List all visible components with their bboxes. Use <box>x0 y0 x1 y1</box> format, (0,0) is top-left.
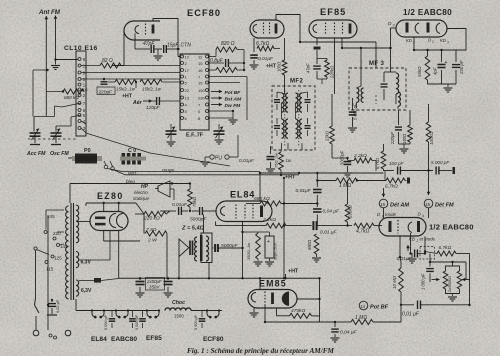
wire y173 run <box>260 172 384 174</box>
capacitor 5000pF au <box>190 207 216 223</box>
capacitor 0,01μF tri <box>397 233 427 262</box>
label KD3 <box>440 38 449 45</box>
wire ef85 beam bar <box>314 38 321 50</box>
svg-text:4μF: 4μF <box>433 67 438 75</box>
wire el84 grid stub <box>215 211 217 222</box>
label MF2 <box>290 79 303 85</box>
arrow det am <box>382 188 386 197</box>
capacitor 5000pF det <box>431 160 455 175</box>
wire ecf left <box>112 31 124 66</box>
label 6,3V b <box>81 288 92 294</box>
svg-text:2: 2 <box>431 40 434 44</box>
wire module r77 <box>209 77 248 121</box>
wire ecf plate top <box>153 19 181 57</box>
svg-text:re: re <box>2 101 6 106</box>
wire x317 col <box>316 173 318 187</box>
svg-text:2x500kΩ: 2x500kΩ <box>447 276 452 293</box>
svg-text:230: 230 <box>198 95 205 100</box>
switch selector <box>34 247 49 298</box>
ground PU <box>201 157 210 166</box>
resistor 150Ω mf3 <box>402 110 412 144</box>
svg-text:EL84: EL84 <box>91 336 107 343</box>
wire bus y48 <box>342 47 392 49</box>
svg-text:150: 150 <box>198 88 205 93</box>
resistor 7,5Ω 2W <box>145 227 167 278</box>
svg-text:680 kΩ: 680 kΩ <box>64 95 79 100</box>
wire row 2 <box>81 78 180 80</box>
ground module <box>209 117 238 124</box>
capacitor 5000pF h2 <box>129 311 136 329</box>
resistor 820Ω <box>209 41 245 63</box>
resistor 6,7kΩ pent <box>256 41 280 51</box>
svg-text:220kΩ: 220kΩ <box>330 65 335 79</box>
svg-text:3: 3 <box>447 41 449 45</box>
arrow det fm <box>427 171 431 196</box>
wire el84 cath <box>241 222 258 279</box>
wire antenna lead 2 <box>54 16 58 60</box>
wire mf3 sig <box>403 143 405 145</box>
svg-text:0,01μF: 0,01μF <box>258 56 274 62</box>
wire em85 grid <box>264 305 266 322</box>
svg-text:EL84: EL84 <box>230 190 255 200</box>
wire bus y42 <box>299 41 376 68</box>
wire mf3 bottom join <box>399 144 411 153</box>
svg-text:+HT: +HT <box>288 269 299 275</box>
capacitor 5000pF ot <box>212 243 243 252</box>
label +HT b <box>266 64 277 70</box>
wire x144 col <box>144 214 145 234</box>
svg-text:220: 220 <box>53 231 61 236</box>
svg-text:EZ80: EZ80 <box>97 191 124 201</box>
tube EF85 <box>309 20 357 38</box>
switch C0 <box>120 153 146 165</box>
transformer sec hv <box>76 203 79 243</box>
wire B+ rail <box>119 277 320 279</box>
potentiometer 2x500kΩ <box>432 266 471 301</box>
capacitor 47pF <box>135 34 162 54</box>
svg-text:rouge: rouge <box>162 168 175 174</box>
tube EZ80 <box>90 212 128 231</box>
paper ghost marks <box>2 96 478 345</box>
svg-text:des: des <box>470 159 478 164</box>
svg-text:0,01μF: 0,01μF <box>239 158 255 164</box>
terminal mains 2 <box>49 330 71 339</box>
svg-text:100 pF: 100 pF <box>389 161 404 166</box>
switch P0 <box>68 154 102 164</box>
svg-text:un ms nne: un ms nne <box>441 106 463 111</box>
svg-text:5000pF: 5000pF <box>221 243 239 249</box>
svg-text:Bst AM: Bst AM <box>225 97 243 103</box>
label D2 <box>428 38 434 45</box>
wire otr drop <box>208 263 210 279</box>
svg-text:0,01μF: 0,01μF <box>172 202 188 208</box>
wire vert run <box>108 169 261 172</box>
wire det fm drop <box>419 208 429 219</box>
wire em85 bottom row <box>264 321 336 323</box>
svg-text:220pF: 220pF <box>390 132 395 145</box>
svg-text:10 MΩ: 10 MΩ <box>392 275 397 289</box>
svg-text:KB: KB <box>409 237 415 242</box>
capacitor 0,01μF col <box>296 188 322 205</box>
wire ez cath drop <box>119 231 145 279</box>
wire mf2 out <box>271 143 303 150</box>
label Osc FM <box>50 151 69 157</box>
resistor 4,7kΩ mod <box>209 68 246 73</box>
wire antenna join <box>54 58 78 60</box>
svg-text:100Ω: 100Ω <box>277 61 282 72</box>
transformer MF3 inner <box>376 92 400 109</box>
svg-text:0,01 μF: 0,01 μF <box>402 312 420 318</box>
svg-text:15kΩ..1w: 15kΩ..1w <box>142 87 162 92</box>
svg-text:la ed: la ed <box>420 281 430 286</box>
ground tri cath <box>408 252 417 263</box>
svg-text:50μF..50V: 50μF..50V <box>274 243 278 260</box>
wire ecf grid <box>130 21 146 41</box>
tube ECF80 pentode <box>250 20 284 38</box>
svg-text:47pF: 47pF <box>306 63 311 73</box>
svg-text:statique: statique <box>133 196 150 201</box>
resistor 22kΩ <box>325 94 335 158</box>
capacitor 220pF mf3 <box>390 110 402 145</box>
label Det AM <box>379 199 409 208</box>
label Ant FM <box>38 9 61 16</box>
svg-text:Fig. 1 : Schéma de principe du: Fig. 1 : Schéma de principe du récepteur… <box>187 347 334 355</box>
wire tuner bottom <box>86 133 230 166</box>
wire diode gnd bus <box>428 84 457 92</box>
svg-text:le s onore de la: le s onore de la <box>400 326 431 331</box>
connector PU <box>205 135 238 162</box>
resistor 55kΩ <box>417 50 430 84</box>
wire det am drop <box>383 208 385 218</box>
svg-text:680Ω: 680Ω <box>307 239 312 250</box>
wire heater from tr <box>79 231 119 283</box>
capacitor 120pF <box>146 97 180 111</box>
tube ECF80 label <box>187 8 221 18</box>
transformer core <box>71 203 74 300</box>
svg-text:15kΩ..1w: 15kΩ..1w <box>116 87 136 92</box>
svg-text:6,7kΩ: 6,7kΩ <box>375 157 380 169</box>
wire antenna lead 1 <box>44 16 48 116</box>
svg-text:1 MΩ: 1 MΩ <box>339 183 351 189</box>
svg-text:350V: 350V <box>149 285 160 290</box>
resistor 680kΩ row <box>246 196 317 206</box>
resistor 6,7kΩ mf3 <box>375 144 386 171</box>
svg-text:1/2 EABC80: 1/2 EABC80 <box>429 223 474 232</box>
tube EABC80 <box>396 20 447 37</box>
svg-text:ECF80: ECF80 <box>203 336 224 343</box>
svg-text:150Ω..1w: 150Ω..1w <box>246 242 251 260</box>
svg-text:0,04 μF: 0,04 μF <box>340 330 358 336</box>
wire bleu run <box>70 182 191 203</box>
resistor 4,7kΩ <box>354 223 382 234</box>
transformer sec 63b <box>76 280 79 299</box>
wire el84 plate up <box>259 172 261 201</box>
label vert <box>128 171 137 177</box>
wire ez plates up <box>86 202 144 214</box>
svg-text:2: 2 <box>412 41 415 45</box>
capacitor 0,01μF pent <box>250 38 274 69</box>
resistor 680Ω <box>307 226 321 262</box>
svg-text:2: 2 <box>416 239 419 243</box>
capacitor 0,01μF bot <box>401 301 470 318</box>
resistor 680kΩ <box>46 89 84 100</box>
svg-text:MF2: MF2 <box>290 79 303 85</box>
capacitor 50μF 50V <box>258 232 278 266</box>
capacitor 0,02μF mains <box>47 299 60 315</box>
svg-text:MF 3: MF 3 <box>369 61 385 67</box>
svg-text:ch que ce der: ch que ce der <box>395 333 423 338</box>
svg-text:ECF80: ECF80 <box>187 8 221 18</box>
svg-text:1: 1 <box>382 214 384 218</box>
arrow Dw FM <box>211 103 241 109</box>
resistor 2,2kΩ <box>262 217 312 228</box>
svg-text:EF85: EF85 <box>146 335 162 342</box>
svg-text:+HT: +HT <box>122 94 133 100</box>
transformer MF3 <box>349 68 406 110</box>
wire heater bus <box>76 299 222 311</box>
svg-text:+HT: +HT <box>285 175 296 181</box>
svg-text:cn tion: cn tion <box>455 148 469 153</box>
tube EL84 label <box>230 190 255 200</box>
resistor 220kΩ col <box>345 181 352 227</box>
tube EZ80 label <box>97 191 124 201</box>
svg-text:Aér: Aér <box>132 100 143 106</box>
svg-text:220 kΩ: 220 kΩ <box>143 216 160 222</box>
svg-text:Pot BF: Pot BF <box>370 305 389 311</box>
wire module r83 <box>209 82 241 84</box>
label Pot BF 2 <box>359 301 388 310</box>
resistor 1MΩ row <box>317 178 386 189</box>
wire kd2 drop <box>413 37 415 51</box>
label +HT a <box>122 82 136 100</box>
resistor 1MΩ em <box>335 305 401 325</box>
label 2x50μF 350V <box>146 278 165 291</box>
resistor 6,7kΩ tri <box>425 245 470 256</box>
capacitor 2x50μF b <box>164 278 173 297</box>
tube EABC80b <box>379 218 426 237</box>
svg-text:220pF: 220pF <box>99 90 113 96</box>
wire mains right <box>48 216 68 330</box>
wire ef85 plate drop <box>341 38 350 49</box>
tube EABC80b label <box>429 223 474 232</box>
svg-text:0,04 μF: 0,04 μF <box>323 209 341 215</box>
svg-text:at deux: at deux <box>452 116 468 121</box>
heater EF85 <box>146 309 162 342</box>
capacitor 15pF/CTN <box>164 43 191 54</box>
wire pin3 stub <box>81 121 86 133</box>
svg-text:KD: KD <box>406 38 412 43</box>
tube ECF80 triode <box>124 21 160 40</box>
svg-text:15pF..CTN: 15pF..CTN <box>167 43 191 49</box>
resistor 100Ω <box>277 38 287 94</box>
ground ecf mid <box>154 49 163 60</box>
svg-text:EABC80: EABC80 <box>111 336 137 343</box>
resistor 15kΩ-1W b <box>140 80 180 92</box>
capacitor 2x50μF a <box>136 278 145 297</box>
wire eabc right <box>447 29 466 51</box>
svg-text:0,02 μF: 0,02 μF <box>55 299 60 313</box>
svg-text:145: 145 <box>60 244 68 249</box>
svg-text:bleu: bleu <box>126 179 135 185</box>
svg-text:5 000 pF: 5 000 pF <box>431 160 450 165</box>
terminal pickup <box>104 161 114 170</box>
resistor 220kΩ ef85 <box>317 59 335 85</box>
svg-text:16: 16 <box>380 202 385 207</box>
capacitor 47pF ef85 <box>306 50 321 79</box>
capacitor 4μF <box>433 50 448 84</box>
svg-text:Ant FM: Ant FM <box>38 9 61 16</box>
capacitor 5000pF h1 <box>104 311 115 331</box>
svg-text:+HT: +HT <box>266 64 277 70</box>
wire rail right drop <box>318 277 320 322</box>
svg-text:D: D <box>388 21 392 27</box>
svg-text:22: 22 <box>185 88 190 93</box>
label Aér <box>132 99 152 106</box>
svg-text:100kΩ: 100kΩ <box>429 131 434 145</box>
module EF7F label <box>186 133 204 139</box>
resistor 220kΩ au <box>143 211 170 222</box>
label rouge <box>162 168 175 174</box>
wire mf3 feed <box>360 48 362 86</box>
svg-text:10: 10 <box>198 61 203 66</box>
label D1 triode <box>377 212 397 218</box>
resistor 100kΩ <box>426 104 434 171</box>
svg-text:3: 3 <box>393 24 395 28</box>
capacitor 0,04μF col <box>313 204 340 226</box>
wire em85 target <box>297 298 320 300</box>
wire row 9 <box>81 72 180 74</box>
tube EM85 label <box>259 279 287 289</box>
resistor 75kΩ <box>188 184 197 213</box>
transformer primary <box>66 206 69 299</box>
resistor 15kΩ-1W a <box>104 80 137 92</box>
label MF3 <box>369 61 385 67</box>
arrow Bst AM <box>211 96 242 102</box>
wire gang dashed <box>28 138 78 140</box>
svg-text:Osc FM: Osc FM <box>50 151 69 157</box>
ground antenna <box>51 60 60 70</box>
svg-text:75Ω..1w: 75Ω..1w <box>274 152 279 168</box>
svg-text:Choc: Choc <box>172 300 185 306</box>
svg-text:1500: 1500 <box>174 314 184 319</box>
wire ht col <box>283 178 285 278</box>
terminal mains 1 <box>33 330 39 336</box>
svg-text:Dw FM: Dw FM <box>225 103 242 109</box>
svg-text:1/2 EABC80: 1/2 EABC80 <box>403 8 452 17</box>
resistor 2,2kΩ mid <box>332 153 376 171</box>
wire d3 drop <box>390 28 392 72</box>
resistor 470kΩ <box>277 308 320 318</box>
svg-text:P0: P0 <box>84 148 91 154</box>
filter dashed box <box>420 247 435 260</box>
capacitor 0,8μF <box>209 58 246 70</box>
wire hp down <box>170 189 174 211</box>
svg-text:E.F..7F: E.F..7F <box>186 133 204 139</box>
svg-text:6,7kΩ: 6,7kΩ <box>385 184 398 190</box>
svg-text:Acc FM: Acc FM <box>26 151 46 157</box>
svg-text:17: 17 <box>185 68 190 73</box>
svg-text:0,01μF: 0,01μF <box>296 188 312 194</box>
svg-text:22kΩ: 22kΩ <box>325 130 330 142</box>
wire ef85 grid drop <box>334 38 336 94</box>
wire mains switch <box>35 298 50 330</box>
wire module r111 <box>209 110 235 117</box>
svg-text:4: 4 <box>422 214 424 218</box>
svg-text:D: D <box>428 38 431 43</box>
resistor 150Ω-1W <box>246 232 263 266</box>
svg-text:5 000 pF: 5 000 pF <box>135 314 139 330</box>
wire grid drop <box>390 236 401 258</box>
svg-text:15: 15 <box>425 202 430 207</box>
speaker HP electrostatique <box>133 181 172 201</box>
svg-text:4,7kΩ: 4,7kΩ <box>356 229 369 235</box>
svg-text:Z = 5,4Ω: Z = 5,4Ω <box>181 226 205 232</box>
speaker output <box>179 239 193 278</box>
svg-text:12: 12 <box>185 54 190 59</box>
label Z=5,4Ω <box>181 226 205 232</box>
label KB2 et triode <box>406 237 436 252</box>
label D4 <box>418 212 425 219</box>
caption <box>187 347 334 355</box>
svg-text:2x50μF: 2x50μF <box>146 279 162 284</box>
label +HT d <box>284 269 299 280</box>
module EF7F <box>180 54 209 130</box>
trimmer A <box>166 124 177 146</box>
tube EABC80 label <box>403 8 452 17</box>
svg-text:+: + <box>267 239 270 245</box>
svg-text:le: le <box>3 228 7 233</box>
label Acc FM <box>26 151 46 157</box>
wire osc row <box>56 115 81 126</box>
tube EM85 <box>248 290 297 309</box>
transformer MF2 <box>272 86 315 150</box>
svg-text:150Ω: 150Ω <box>402 133 407 144</box>
label Det FM <box>424 199 454 208</box>
resistor 75Ω-1W <box>274 150 292 176</box>
svg-text:mo ler ce: mo ler ce <box>444 126 463 131</box>
wire 1m up <box>400 305 402 322</box>
svg-text:5 000 pF: 5 000 pF <box>104 314 108 330</box>
resistor 6,7kΩ det <box>384 171 411 190</box>
wire ez hv <box>77 222 140 242</box>
variable capacitor Acc FM <box>30 117 41 145</box>
svg-text:125: 125 <box>54 256 62 261</box>
svg-text:15: 15 <box>198 80 203 85</box>
wire acc row <box>33 69 55 117</box>
label 6,3V a <box>81 260 92 266</box>
wire vol feed <box>430 261 466 280</box>
label D3 <box>388 21 395 28</box>
svg-text:5 000 pF: 5 000 pF <box>194 314 198 330</box>
svg-text:0,01 μF: 0,01 μF <box>320 230 338 236</box>
transformer taps <box>44 210 68 272</box>
transformer sec 63a <box>76 252 79 269</box>
svg-text:PU: PU <box>215 156 222 162</box>
label C0 <box>128 148 136 154</box>
capacitor 220pF r <box>452 50 464 84</box>
svg-text:Dét AM: Dét AM <box>390 203 409 209</box>
label bleu <box>126 179 135 185</box>
svg-text:14: 14 <box>360 304 365 309</box>
svg-text:75kΩ: 75kΩ <box>192 196 197 207</box>
wire d3 left <box>391 27 397 29</box>
capacitor 0,01μF mf2 <box>239 146 275 173</box>
capacitor 5000pF h3 <box>135 311 146 331</box>
svg-text:6,7kΩ: 6,7kΩ <box>439 245 452 251</box>
svg-text:Pot BF: Pot BF <box>225 90 242 96</box>
svg-text:120pF: 120pF <box>146 105 161 111</box>
svg-text:16: 16 <box>198 68 203 73</box>
